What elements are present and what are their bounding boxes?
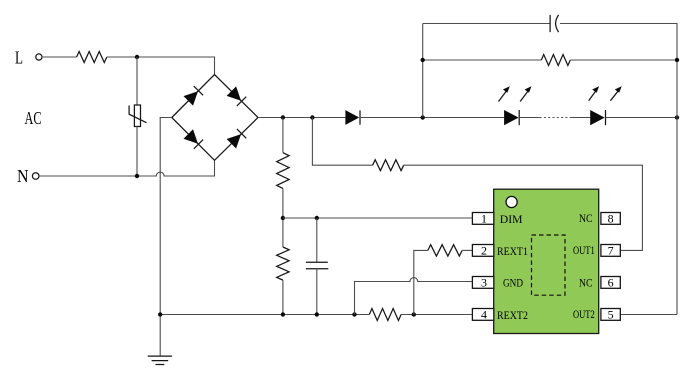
terminal L	[36, 54, 42, 60]
wire cap C2 top	[316, 218, 318, 262]
wire pin5 to right rail	[620, 314, 677, 316]
node L-junction	[135, 55, 139, 59]
wire dotted to LED2	[570, 117, 591, 119]
bridge diode BL	[184, 129, 204, 149]
pin 6 box	[601, 276, 620, 290]
wire R2 to rail	[282, 280, 284, 314]
IC pin1 marker circle	[506, 196, 517, 207]
pin 4 box	[472, 308, 493, 322]
svg-text:2: 2	[481, 244, 487, 258]
wire REXT1 to pin2	[462, 249, 472, 251]
op IC U1 body	[494, 189, 599, 333]
wire bridge left to ground rail	[160, 118, 172, 357]
resistor R2	[277, 247, 289, 280]
resistor fuse	[77, 52, 107, 63]
bridge diode TR	[227, 86, 247, 106]
wire N with hop to bridge bottom	[39, 160, 214, 176]
wire bottom rail	[160, 314, 369, 316]
svg-text:N: N	[17, 166, 29, 186]
node N-junction	[135, 174, 139, 178]
wire out1 sense line	[312, 118, 372, 166]
svg-text:REXT1: REXT1	[497, 244, 528, 258]
resistor REXT1	[428, 245, 462, 256]
capacitor C1	[550, 15, 559, 32]
wire R1 chain top	[282, 118, 284, 153]
svg-text:OUT1: OUT1	[573, 243, 595, 257]
svg-text:6: 6	[608, 276, 614, 290]
svg-text:DIM: DIM	[500, 212, 523, 226]
pin 7 box	[601, 244, 620, 258]
terminal N	[32, 173, 39, 180]
wire feedback mid line left	[423, 59, 542, 61]
wire GND pin3 line with hop	[355, 278, 473, 315]
svg-text:4: 4	[481, 308, 487, 322]
wire cap C2 bottom	[316, 269, 318, 315]
wire DIM line to pin1	[283, 217, 473, 219]
wire LED2 to right rail	[606, 117, 677, 119]
node rail-R2	[281, 312, 285, 316]
wire feedback top line left	[423, 23, 550, 25]
LED string LED2	[590, 110, 605, 125]
node feedback mid left	[421, 58, 425, 62]
svg-text:5: 5	[608, 308, 614, 322]
diode D1	[345, 110, 360, 125]
wire feedback top line right	[560, 24, 677, 315]
LED1 arrows	[499, 86, 532, 101]
wire feedback left vertical	[422, 24, 424, 118]
resistor R1	[277, 153, 289, 189]
ground	[148, 356, 172, 364]
svg-text:8: 8	[608, 212, 614, 226]
LED2 arrows	[589, 86, 622, 100]
svg-text:L: L	[15, 48, 23, 68]
pin 8 box	[601, 212, 620, 226]
svg-text:GND: GND	[503, 275, 523, 289]
wire R1 to DIM node	[282, 188, 284, 247]
resistor REXT2	[369, 309, 401, 321]
wire rail to pin4	[401, 314, 472, 316]
pin 1 box	[472, 212, 493, 226]
resistor sense	[373, 160, 404, 171]
wire DC rail bridge to diode	[258, 117, 345, 119]
node DIM-cap junction	[315, 216, 319, 220]
node rail-ground	[158, 312, 162, 316]
node rail-R1chain	[281, 115, 285, 119]
svg-text:REXT2: REXT2	[497, 308, 528, 322]
pin 3 box	[472, 276, 493, 290]
resistor feedback	[541, 55, 570, 66]
pin 2 box	[472, 244, 493, 258]
bridge rectifier outline	[172, 75, 258, 161]
svg-text:NC: NC	[579, 211, 593, 225]
wire diode to LED1	[360, 117, 504, 119]
node rail-C2	[315, 312, 319, 316]
wire L to R1	[42, 56, 77, 58]
wire REXT1 vertical	[414, 250, 428, 314]
varistor RV1	[129, 105, 146, 127]
pin 5 box	[601, 308, 620, 322]
wire varistor top	[136, 57, 138, 105]
wire LED1 to dotted	[519, 117, 540, 119]
wire to bridge top	[107, 57, 215, 75]
svg-text:NC: NC	[579, 275, 593, 289]
svg-text:1: 1	[481, 212, 487, 226]
IC dashed internal box	[532, 235, 566, 295]
svg-text:OUT2: OUT2	[573, 307, 595, 321]
bridge diode TL	[184, 86, 204, 106]
svg-text:7: 7	[608, 244, 614, 258]
wire varistor bottom	[136, 127, 138, 177]
wire feedback mid line right	[570, 59, 677, 61]
capacitor C2	[306, 262, 328, 269]
node feedback mid right	[675, 58, 679, 62]
svg-text:AC: AC	[25, 108, 42, 128]
node rail-gndline	[352, 312, 356, 316]
node rail-rext1	[412, 312, 416, 316]
wire sense to pin7	[404, 165, 643, 250]
node rail-feedback-left	[421, 115, 425, 119]
node rail-out1line	[310, 115, 314, 119]
bridge diode BR	[227, 129, 247, 149]
LED string LED1	[504, 110, 519, 125]
node rail-feedback-right	[675, 115, 679, 119]
wire dotted LED string continuation	[540, 117, 570, 119]
node DIM junction	[281, 216, 285, 220]
svg-text:3: 3	[481, 276, 487, 290]
